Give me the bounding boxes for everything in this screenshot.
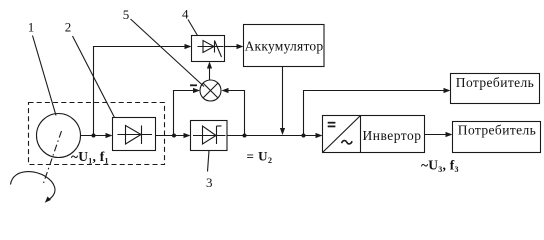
- shaft axis (dash-dot line): [43, 131, 62, 185]
- svg-text:Инвертор: Инвертор: [362, 128, 421, 143]
- dc bus wire after box 3 to inverter: [227, 135, 317, 137]
- generator G circle: [37, 114, 81, 158]
- wire rectifier 2 to box 3: [156, 135, 186, 137]
- junction node on generator output: [92, 134, 96, 138]
- leader line from label 4 to thyristor box 4: [188, 20, 198, 36]
- accumulator box: [244, 25, 325, 67]
- thyristor symbol in box 4: [198, 46, 224, 48]
- wire inverter to consumer 2: [425, 134, 447, 136]
- wire bus up and right to consumer 1: [304, 91, 446, 136]
- thyristor box 4: [192, 36, 225, 62]
- svg-text:4: 4: [182, 7, 189, 22]
- svg-text:Потребитель: Потребитель: [456, 75, 534, 90]
- svg-text:Аккумулятор: Аккумулятор: [245, 39, 324, 54]
- junction node between box2 and box3: [172, 134, 176, 138]
- wire thyristor 4 to accumulator: [225, 46, 239, 48]
- junction node bus-to-comparator: [243, 134, 247, 138]
- minus sign: [190, 84, 197, 86]
- ac symbol (~): [342, 141, 353, 144]
- wire junction up to comparator minus input: [174, 91, 195, 136]
- leader line from label 5 to comparator: [131, 19, 205, 87]
- dashed enclosure (generator unit): [29, 103, 165, 165]
- consumer box 2: [453, 122, 541, 153]
- junction node bus-to-consumer1: [302, 134, 306, 138]
- consumer box 1: [451, 74, 540, 104]
- leader line from label 2 to rectifier box 2: [73, 36, 115, 118]
- dc symbol (=): [328, 122, 336, 124]
- svg-text:1: 1: [28, 20, 35, 35]
- wire accumulator down to bus: [282, 67, 284, 129]
- leader line from label 1 to generator: [33, 36, 57, 116]
- rectifier box 2: [113, 118, 156, 151]
- wire bus up to comparator right input: [228, 91, 245, 136]
- svg-text:2: 2: [65, 20, 72, 35]
- rotation direction arc with arrow: [11, 172, 55, 200]
- leader line from box 3 to label 3: [208, 151, 210, 172]
- inverter cell divider: [360, 116, 362, 153]
- svg-text:5: 5: [123, 7, 130, 22]
- comparator (summing element) circle: [200, 80, 221, 101]
- wire comparator up to thyristor 4: [209, 66, 211, 80]
- wire junction up and right to thyristor 4: [94, 47, 186, 136]
- inverter box: [323, 116, 425, 153]
- svg-text:3: 3: [206, 175, 213, 190]
- wire generator to rectifier 2: [81, 135, 108, 137]
- svg-text:Потребитель: Потребитель: [458, 123, 536, 138]
- controlled rectifier box 3: [191, 121, 228, 151]
- diode symbol in box 2: [118, 134, 153, 136]
- inverter diagonal: [323, 116, 360, 152]
- thyristor symbol in box 3: [193, 135, 226, 137]
